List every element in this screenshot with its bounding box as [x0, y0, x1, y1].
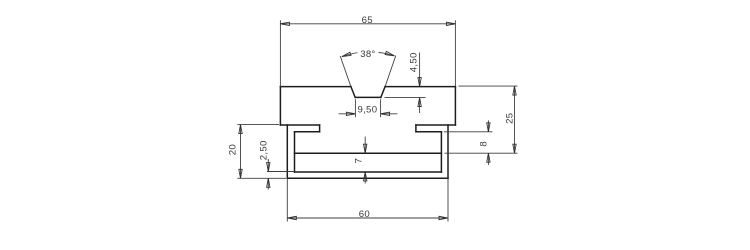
- left lip end face: [319, 125, 321, 132]
- dim 9.50 extension line left: [354, 99, 356, 117]
- channel outer wall left: [286, 125, 288, 178]
- dim 65 extension line right: [454, 20, 456, 86]
- dim 65 extension line left: [279, 20, 281, 86]
- dim 38 extension of left flank: [340, 56, 351, 87]
- right lip end face: [415, 125, 417, 132]
- dim 65 line: [280, 23, 455, 25]
- left lip underside: [295, 131, 320, 133]
- dim 9.50 line left: [339, 113, 356, 115]
- internal shelf edge: [295, 152, 442, 154]
- channel inner wall left: [294, 132, 296, 172]
- V-groove floor: [355, 96, 381, 98]
- channel outer bottom: [287, 177, 448, 179]
- dim 4.50 extension line: [385, 97, 426, 99]
- V-groove left flank: [351, 87, 355, 98]
- svg-text:20: 20: [228, 144, 239, 155]
- dim 60 extension line left: [286, 178, 288, 221]
- svg-text:25: 25: [504, 113, 515, 124]
- block underside left: [280, 124, 319, 126]
- dim 7 upper leader: [364, 137, 366, 154]
- dim 9.50 extension line right: [380, 99, 382, 117]
- right lip underside: [416, 131, 442, 133]
- svg-text:8: 8: [479, 141, 490, 147]
- dim 4.50 upper leader: [419, 53, 421, 87]
- block left edge: [279, 87, 281, 125]
- dim 4.50 lower leader: [419, 98, 421, 113]
- svg-text:60: 60: [359, 209, 370, 220]
- svg-text:65: 65: [362, 15, 373, 26]
- dim 60 extension line right: [447, 178, 449, 221]
- svg-text:38°: 38°: [360, 49, 375, 60]
- V-groove right flank: [381, 87, 385, 98]
- channel inner floor: [295, 171, 442, 173]
- dim 20 extension line bottom: [237, 177, 286, 179]
- dim 20 line: [240, 125, 242, 179]
- block right edge: [454, 87, 456, 125]
- dim 60 line: [287, 217, 448, 219]
- dim 9.50 line right: [381, 113, 398, 115]
- dim 25 extension line top: [459, 85, 518, 87]
- svg-text:7: 7: [354, 158, 365, 164]
- dim 38 extension of right flank: [385, 56, 396, 87]
- svg-text:4,50: 4,50: [408, 52, 419, 72]
- block underside right: [416, 124, 456, 126]
- svg-text:2,50: 2,50: [258, 140, 269, 160]
- dim 2.50 extension line: [267, 171, 295, 173]
- dim 38 arc: [342, 52, 394, 57]
- dim 38 label: [358, 48, 379, 59]
- part top surface left: [280, 86, 351, 88]
- dim 2.50 upper leader: [267, 159, 269, 172]
- dim 25 line: [514, 86, 516, 153]
- svg-text:9,50: 9,50: [357, 104, 377, 115]
- dim 8 lower leader: [487, 153, 489, 165]
- part top surface right: [385, 86, 455, 88]
- dim 7 lower leader: [364, 172, 366, 184]
- dim 25 extension line bottom: [445, 152, 518, 154]
- channel outer wall right: [447, 125, 449, 178]
- dim 8 upper leader: [487, 120, 489, 132]
- dim 20 extension line top: [237, 124, 279, 126]
- dim 8 extension line: [444, 131, 493, 133]
- dim 2.50 lower leader: [267, 178, 269, 189]
- channel inner wall right: [440, 132, 442, 172]
